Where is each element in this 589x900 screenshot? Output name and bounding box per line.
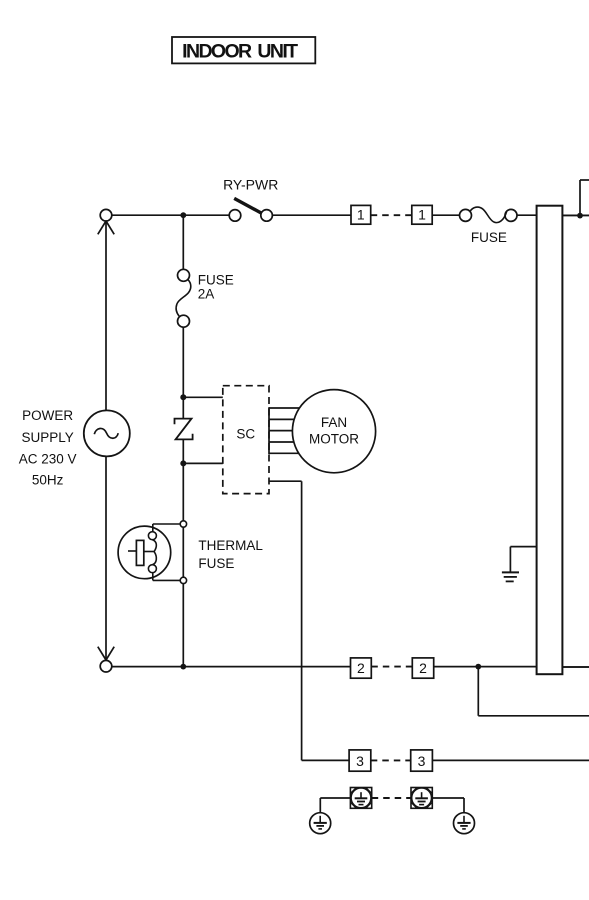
svg-text:INDOOR UNIT: INDOOR UNIT (182, 41, 298, 63)
svg-text:3: 3 (418, 753, 426, 769)
svg-text:1: 1 (418, 206, 426, 222)
svg-text:2: 2 (419, 660, 427, 676)
svg-text:MOTOR: MOTOR (309, 431, 359, 446)
svg-text:SUPPLY: SUPPLY (21, 430, 73, 445)
svg-text:SC: SC (236, 426, 255, 441)
svg-text:AC 230 V: AC 230 V (19, 452, 77, 467)
svg-text:RY-PWR: RY-PWR (223, 177, 278, 193)
svg-text:FUSE: FUSE (198, 272, 234, 287)
svg-text:2A: 2A (198, 287, 215, 302)
svg-text:FUSE: FUSE (471, 230, 507, 245)
svg-text:FUSE: FUSE (198, 556, 234, 571)
svg-text:50Hz: 50Hz (32, 472, 64, 487)
svg-text:THERMAL: THERMAL (198, 538, 263, 553)
svg-text:3: 3 (356, 753, 364, 769)
svg-text:POWER: POWER (22, 408, 73, 423)
svg-text:FAN: FAN (321, 415, 347, 430)
svg-text:1: 1 (357, 206, 365, 222)
svg-text:2: 2 (357, 660, 365, 676)
